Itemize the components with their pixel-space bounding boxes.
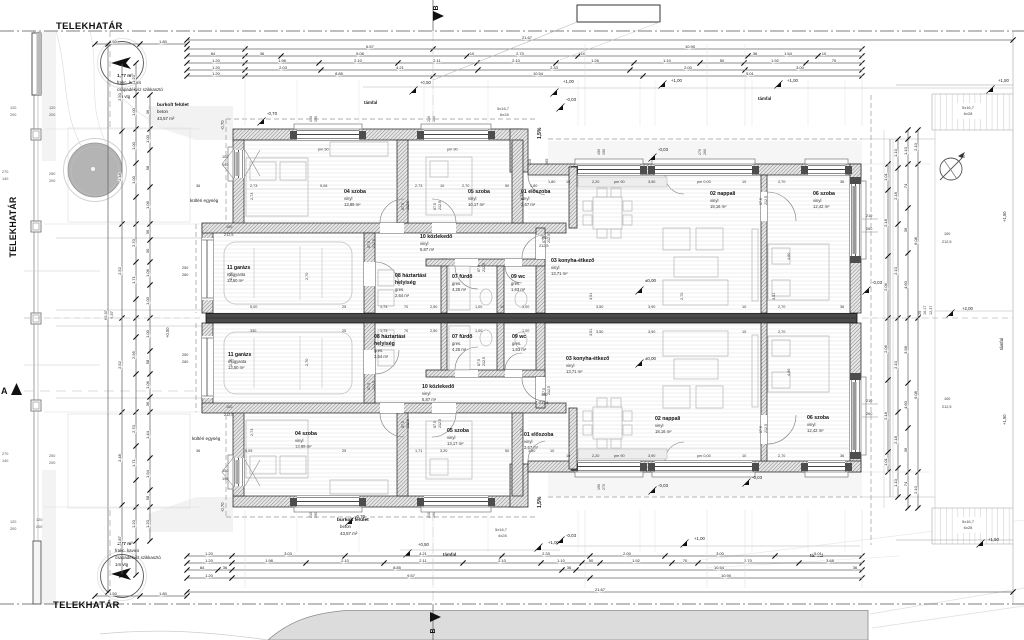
svg-text:É: É bbox=[962, 152, 965, 159]
svg-text:1,44: 1,44 bbox=[145, 430, 150, 439]
svg-text:70: 70 bbox=[832, 58, 837, 63]
concrete patch bottom-left bbox=[148, 497, 233, 532]
terrace strip top right section bbox=[548, 141, 862, 164]
svg-text:+1,00: +1,00 bbox=[787, 78, 798, 83]
svg-text:260: 260 bbox=[866, 412, 872, 416]
svg-text:2,50: 2,50 bbox=[430, 305, 437, 309]
svg-text:11 garázs: 11 garázs bbox=[228, 352, 251, 358]
svg-text:3,51: 3,51 bbox=[589, 329, 593, 336]
svg-text:-0,03: -0,03 bbox=[752, 475, 763, 480]
door arc 09 bottom bbox=[505, 353, 522, 370]
svg-text:5,05: 5,05 bbox=[245, 449, 252, 453]
svg-text:212,5: 212,5 bbox=[438, 419, 442, 428]
svg-text:beton: beton bbox=[157, 109, 169, 114]
svg-text:21,67: 21,67 bbox=[595, 587, 606, 592]
svg-text:2,10: 2,10 bbox=[512, 58, 521, 63]
svg-text:4x28: 4x28 bbox=[498, 533, 507, 538]
svg-text:+1,50: +1,50 bbox=[988, 537, 999, 542]
svg-text:pm 90: pm 90 bbox=[318, 148, 329, 152]
svg-text:burkolt felület: burkolt felület bbox=[157, 102, 189, 108]
door arc terrace top bbox=[665, 175, 684, 194]
room label 07 bottom bbox=[452, 334, 472, 352]
svg-text:74: 74 bbox=[903, 481, 908, 486]
wall 05-eloszoba top bbox=[512, 140, 523, 223]
svg-text:5,08: 5,08 bbox=[320, 184, 327, 188]
svg-text:2,10: 2,10 bbox=[341, 558, 350, 563]
fence post tall bottom bbox=[33, 541, 41, 604]
level line +1,00 top bbox=[560, 87, 1013, 89]
svg-text:190: 190 bbox=[597, 149, 601, 155]
room label 03 top bbox=[551, 258, 594, 276]
svg-text:08 háztartási: 08 háztartási bbox=[374, 334, 406, 340]
svg-text:260: 260 bbox=[182, 273, 188, 277]
wall exterior top-right section bbox=[528, 164, 861, 175]
room label 01 bottom bbox=[524, 432, 554, 450]
svg-text:2,70: 2,70 bbox=[131, 238, 136, 247]
svg-text:03 konyha-étkező: 03 konyha-étkező bbox=[551, 258, 594, 264]
svg-text:2,18: 2,18 bbox=[883, 218, 888, 227]
svg-text:3,68: 3,68 bbox=[826, 558, 835, 563]
svg-text:36: 36 bbox=[145, 401, 150, 406]
driveway edges bottom bbox=[56, 325, 202, 327]
svg-text:helyiség: helyiség bbox=[395, 280, 416, 286]
faint parcel rect top-left bbox=[68, 128, 190, 222]
wall 04-05 bottom bbox=[397, 413, 408, 496]
level +1,50 top right bbox=[896, 84, 1013, 86]
garage door bottom bbox=[202, 336, 213, 398]
room label 11 bottom bbox=[228, 352, 251, 370]
svg-text:120: 120 bbox=[10, 520, 16, 524]
svg-text:TELEKHATÁR: TELEKHATÁR bbox=[56, 21, 123, 32]
window swing chevron bottom bbox=[222, 458, 233, 486]
door arc 06 bottom bbox=[767, 415, 796, 444]
svg-text:-0,03: -0,03 bbox=[566, 97, 577, 102]
svg-text:2,18: 2,18 bbox=[893, 191, 898, 200]
svg-text:6,08: 6,08 bbox=[913, 390, 918, 399]
room label 08 bottom bbox=[374, 334, 406, 340]
svg-text:6x28: 6x28 bbox=[500, 112, 509, 117]
wall 04-05 top bbox=[397, 140, 408, 223]
wall eloszoba-konyha top bbox=[569, 167, 577, 228]
dimension chain left 4 bbox=[149, 95, 151, 541]
svg-text:2,70: 2,70 bbox=[516, 51, 525, 56]
svg-text:330: 330 bbox=[250, 329, 256, 333]
svg-text:270: 270 bbox=[2, 170, 8, 174]
dimension chain bottom 1 bbox=[187, 555, 862, 557]
svg-text:36: 36 bbox=[840, 180, 844, 184]
svg-text:vinyl: vinyl bbox=[295, 438, 303, 443]
svg-text:TELEKHATÁR: TELEKHATÁR bbox=[8, 196, 18, 257]
svg-text:12,37: 12,37 bbox=[929, 305, 933, 315]
room label 09 top bbox=[511, 274, 526, 292]
svg-text:120: 120 bbox=[10, 106, 16, 110]
svg-text:4,60: 4,60 bbox=[903, 280, 908, 289]
svg-text:támfal: támfal bbox=[758, 96, 771, 101]
svg-text:1,54: 1,54 bbox=[784, 51, 793, 56]
dimension chain top 5 bbox=[187, 69, 862, 71]
svg-text:260: 260 bbox=[866, 227, 872, 231]
window 04 szoba top bbox=[294, 124, 362, 140]
TELEKHATAR bottom boundary line bbox=[0, 603, 1024, 605]
svg-text:A: A bbox=[1, 386, 8, 396]
svg-text:vinyl: vinyl bbox=[566, 363, 574, 368]
band level dash right margin bbox=[862, 317, 1013, 319]
svg-text:3,51: 3,51 bbox=[772, 293, 776, 300]
svg-text:2,70: 2,70 bbox=[778, 454, 785, 458]
svg-text:3,90: 3,90 bbox=[648, 454, 655, 458]
door arc entrance bottom bbox=[528, 441, 545, 461]
svg-text:5,87 m²: 5,87 m² bbox=[420, 247, 435, 252]
svg-text:270: 270 bbox=[2, 452, 8, 456]
svg-text:2,11: 2,11 bbox=[433, 58, 441, 63]
svg-text:10: 10 bbox=[470, 51, 475, 56]
svg-text:2,33: 2,33 bbox=[550, 65, 559, 70]
svg-text:2,70: 2,70 bbox=[778, 305, 785, 309]
dimension chain bottom 4 bbox=[187, 577, 862, 579]
door arc 08 top bbox=[375, 262, 399, 286]
wall nappali-06szoba bottom bbox=[761, 323, 767, 461]
party wall dark band bbox=[206, 314, 857, 324]
svg-text:36: 36 bbox=[260, 51, 265, 56]
svg-text:50: 50 bbox=[720, 58, 725, 63]
svg-text:212,5: 212,5 bbox=[224, 413, 234, 417]
svg-text:támfal: támfal bbox=[999, 338, 1004, 350]
road pavement bottom bbox=[268, 611, 868, 640]
svg-text:1,80: 1,80 bbox=[530, 184, 537, 188]
svg-text:+1,00: +1,00 bbox=[548, 540, 559, 545]
furniture washer 08 top bbox=[378, 290, 394, 306]
wall corridor-bath bottom bbox=[426, 370, 545, 377]
svg-text:2,70: 2,70 bbox=[778, 180, 785, 184]
tree circle bbox=[68, 143, 122, 197]
svg-text:100: 100 bbox=[944, 232, 950, 236]
svg-text:8,85: 8,85 bbox=[335, 71, 344, 76]
svg-text:pm 0,00: pm 0,00 bbox=[697, 180, 711, 184]
svg-text:kültéri egység: kültéri egység bbox=[192, 436, 221, 441]
furniture tv stand top bbox=[752, 229, 758, 301]
room label 02 bottom bbox=[655, 416, 681, 434]
svg-text:87,5: 87,5 bbox=[401, 421, 405, 428]
svg-text:helyiség: helyiség bbox=[374, 341, 395, 347]
svg-text:212,5: 212,5 bbox=[539, 401, 549, 405]
window konyha top bbox=[575, 159, 643, 175]
furniture bed 04 top bbox=[246, 158, 308, 216]
svg-text:2,73: 2,73 bbox=[250, 184, 257, 188]
svg-text:-0,03: -0,03 bbox=[658, 483, 669, 488]
glass bar right upper bbox=[853, 186, 857, 254]
wall bedrooms-corridor top bbox=[202, 223, 566, 233]
window 05 szoba bottom bbox=[421, 496, 491, 512]
svg-text:2,10: 2,10 bbox=[893, 266, 898, 275]
furniture bath fixtures top bbox=[449, 266, 470, 310]
wall exterior left bedrooms bottom bbox=[233, 412, 244, 496]
band level dash left margin bbox=[24, 317, 200, 319]
svg-text:43,57 m²: 43,57 m² bbox=[340, 531, 358, 536]
svg-text:5x16,7: 5x16,7 bbox=[497, 106, 510, 111]
svg-text:+1,00: +1,00 bbox=[671, 78, 682, 83]
svg-text:190: 190 bbox=[597, 484, 601, 490]
svg-text:1,10: 1,10 bbox=[893, 148, 898, 157]
TELEKHATAR top boundary line bbox=[0, 30, 1024, 32]
svg-text:1,10: 1,10 bbox=[663, 58, 672, 63]
wall 07-09 top bbox=[497, 262, 504, 313]
room label 05 top bbox=[468, 189, 490, 207]
wall corridor-bath top bbox=[426, 259, 545, 266]
svg-text:50: 50 bbox=[505, 449, 509, 453]
svg-text:2,06: 2,06 bbox=[883, 344, 888, 353]
svg-text:10: 10 bbox=[566, 454, 570, 458]
svg-text:12,42 m²: 12,42 m² bbox=[807, 428, 824, 433]
svg-text:2,73: 2,73 bbox=[415, 184, 422, 188]
svg-text:25: 25 bbox=[342, 329, 346, 333]
window 04 szoba bottom bbox=[294, 496, 362, 512]
svg-text:212,5: 212,5 bbox=[539, 244, 549, 248]
svg-text:5x16,7: 5x16,7 bbox=[962, 519, 975, 524]
svg-text:210: 210 bbox=[866, 399, 872, 403]
svg-text:2,70: 2,70 bbox=[680, 293, 684, 300]
dimension chain top 6 bbox=[187, 75, 862, 77]
svg-text:25: 25 bbox=[342, 305, 346, 309]
svg-text:10,90: 10,90 bbox=[685, 44, 696, 49]
svg-text:1,92: 1,92 bbox=[632, 558, 641, 563]
furniture bath fixtures bottom bbox=[449, 326, 470, 370]
svg-text:1,20: 1,20 bbox=[212, 58, 221, 63]
svg-text:2,50: 2,50 bbox=[117, 92, 122, 101]
svg-text:140: 140 bbox=[2, 177, 8, 181]
svg-text:09 wc: 09 wc bbox=[512, 334, 526, 340]
extension lines left bbox=[44, 128, 200, 130]
room label 04 top bbox=[344, 189, 366, 207]
svg-text:B: B bbox=[433, 5, 440, 10]
svg-text:200: 200 bbox=[49, 113, 55, 117]
door arc 09 top bbox=[505, 266, 522, 283]
svg-text:10,54: 10,54 bbox=[714, 565, 725, 570]
dimension chain right 2 bbox=[897, 139, 899, 497]
svg-text:2,73: 2,73 bbox=[250, 193, 254, 200]
svg-text:190: 190 bbox=[314, 116, 318, 122]
svg-text:támfal: támfal bbox=[364, 100, 377, 105]
svg-text:2,52: 2,52 bbox=[117, 266, 122, 275]
door arc 05 top bbox=[432, 199, 456, 223]
svg-text:62,37: 62,37 bbox=[103, 309, 108, 320]
svg-text:212,5: 212,5 bbox=[547, 234, 551, 243]
svg-text:1,20: 1,20 bbox=[212, 65, 221, 70]
terrace right outline bbox=[934, 130, 936, 508]
furniture sofa set bottom bbox=[663, 386, 690, 408]
svg-text:1,98: 1,98 bbox=[265, 558, 274, 563]
wall exterior right lower bbox=[850, 323, 861, 472]
cross mark bottom bbox=[245, 460, 260, 486]
dimension chain right 1 bbox=[887, 164, 889, 472]
svg-text:1,06: 1,06 bbox=[145, 200, 150, 209]
svg-text:87,5: 87,5 bbox=[433, 203, 437, 210]
svg-text:04 szoba: 04 szoba bbox=[295, 431, 317, 437]
wall exterior garage left top bbox=[202, 224, 213, 313]
window right wall upper bbox=[850, 181, 866, 259]
window 05 szoba top bbox=[421, 124, 491, 140]
extension lines top bbox=[296, 80, 298, 126]
left fence line bbox=[33, 31, 35, 604]
svg-text:+1,50: +1,50 bbox=[998, 78, 1009, 83]
wall exterior garage left bottom bbox=[202, 323, 213, 412]
svg-text:1,00: 1,00 bbox=[522, 305, 529, 309]
svg-text:pm 90: pm 90 bbox=[614, 454, 625, 458]
svg-text:200: 200 bbox=[10, 527, 16, 531]
wall exterior right upper bbox=[850, 164, 861, 313]
svg-text:vinyl: vinyl bbox=[524, 439, 532, 444]
svg-text:vinyl: vinyl bbox=[420, 241, 428, 246]
svg-text:pm 0,00: pm 0,00 bbox=[697, 454, 711, 458]
dimension chain top small left bbox=[95, 43, 187, 45]
extension lines bottom bbox=[296, 510, 298, 552]
roof eave dashes bottom unit bbox=[226, 516, 535, 518]
left boundary gray strip bbox=[42, 31, 56, 161]
svg-text:2,10: 2,10 bbox=[913, 142, 918, 151]
fence post squares bbox=[31, 129, 41, 140]
svg-text:3,00: 3,00 bbox=[716, 551, 725, 556]
svg-text:4,21: 4,21 bbox=[419, 551, 428, 556]
door arc konyha top bbox=[522, 235, 545, 258]
svg-text:2,48: 2,48 bbox=[117, 453, 122, 462]
dimension chain top 3 bbox=[187, 55, 862, 57]
svg-text:1,10: 1,10 bbox=[893, 478, 898, 487]
svg-text:07 fürdő: 07 fürdő bbox=[452, 334, 472, 340]
window 210/260 right wall labels bbox=[862, 218, 878, 220]
svg-text:1,73: 1,73 bbox=[380, 305, 387, 309]
svg-text:270: 270 bbox=[698, 149, 702, 155]
svg-text:8,85: 8,85 bbox=[393, 565, 402, 570]
svg-text:02 nappali: 02 nappali bbox=[655, 416, 681, 422]
svg-text:2,50: 2,50 bbox=[430, 329, 437, 333]
svg-text:190: 190 bbox=[432, 512, 436, 518]
svg-text:87,5: 87,5 bbox=[477, 359, 481, 366]
wall exterior bottom-left section bbox=[233, 496, 522, 507]
room label 11 top bbox=[227, 265, 250, 283]
svg-text:+2,00: +2,00 bbox=[962, 306, 973, 311]
svg-text:2,70: 2,70 bbox=[131, 424, 136, 433]
furniture kitchen table bottom bbox=[593, 407, 622, 439]
svg-text:TELEKHATÁR: TELEKHATÁR bbox=[53, 600, 120, 611]
svg-text:+1,50: +1,50 bbox=[1002, 211, 1007, 222]
svg-text:1,5%: 1,5% bbox=[537, 127, 543, 139]
svg-text:50: 50 bbox=[505, 184, 509, 188]
svg-text:1,01: 1,01 bbox=[883, 172, 888, 181]
section B line bbox=[432, 31, 434, 604]
svg-text:1,00: 1,00 bbox=[522, 329, 529, 333]
svg-text:2,48: 2,48 bbox=[117, 172, 122, 181]
room label 06 bottom bbox=[807, 415, 829, 433]
svg-text:-0,70: -0,70 bbox=[220, 120, 225, 130]
dimension chain top total bbox=[187, 39, 1013, 41]
svg-text:210: 210 bbox=[427, 116, 431, 122]
svg-text:2,18: 2,18 bbox=[893, 435, 898, 444]
svg-text:87,5: 87,5 bbox=[433, 421, 437, 428]
svg-text:260: 260 bbox=[703, 149, 707, 155]
furniture sofa set top bbox=[663, 228, 690, 250]
svg-text:gres.: gres. bbox=[452, 341, 461, 346]
svg-text:2,20: 2,20 bbox=[592, 180, 599, 184]
level line +2,00 bbox=[935, 310, 1013, 312]
svg-text:+1,00: +1,00 bbox=[563, 79, 574, 84]
extension lines right bbox=[862, 163, 930, 165]
stairs top right bbox=[932, 94, 1013, 130]
svg-text:190: 190 bbox=[602, 149, 606, 155]
furniture wardrobe 04 top bbox=[330, 142, 388, 156]
level +1,50 bottom right bbox=[896, 539, 1013, 541]
svg-text:212,5: 212,5 bbox=[764, 424, 768, 433]
window konyha bottom bbox=[575, 461, 643, 477]
svg-text:74: 74 bbox=[903, 183, 908, 188]
svg-text:2,70: 2,70 bbox=[462, 184, 469, 188]
svg-text:10 közlekedő: 10 közlekedő bbox=[422, 384, 454, 390]
door arc 04 bottom bbox=[380, 413, 404, 437]
window jamb blocks bbox=[290, 131, 861, 506]
svg-text:10 közlekedő: 10 közlekedő bbox=[420, 234, 452, 240]
door arc terrace bottom bbox=[665, 442, 684, 461]
svg-text:3,03: 3,03 bbox=[284, 551, 293, 556]
svg-text:190: 190 bbox=[222, 163, 228, 167]
room label 08 top bbox=[395, 273, 427, 279]
window 06 szoba top bbox=[805, 159, 848, 175]
stairs bottom right bbox=[932, 508, 1013, 544]
wall nappali-06szoba top bbox=[761, 175, 767, 313]
svg-text:100: 100 bbox=[944, 397, 950, 401]
svg-text:frakc. kavics: frakc. kavics bbox=[117, 80, 142, 85]
svg-text:84: 84 bbox=[211, 51, 216, 56]
terrace strip bottom right section bbox=[548, 472, 862, 496]
svg-text:210: 210 bbox=[866, 214, 872, 218]
svg-text:36: 36 bbox=[145, 109, 150, 114]
svg-text:-0,70: -0,70 bbox=[220, 502, 225, 512]
svg-text:gres.: gres. bbox=[395, 287, 404, 292]
svg-text:vinyl: vinyl bbox=[813, 198, 821, 203]
svg-text:1,20: 1,20 bbox=[212, 71, 221, 76]
svg-text:1,20: 1,20 bbox=[205, 551, 214, 556]
svg-text:87,5: 87,5 bbox=[367, 383, 371, 390]
svg-text:07 fürdő: 07 fürdő bbox=[452, 274, 472, 280]
svg-text:36: 36 bbox=[753, 51, 758, 56]
furniture wardrobe 04 bottom bbox=[330, 480, 388, 494]
svg-text:212,5: 212,5 bbox=[406, 419, 410, 428]
svg-text:vinyl: vinyl bbox=[468, 196, 476, 201]
svg-text:10: 10 bbox=[742, 454, 746, 458]
svg-text:10: 10 bbox=[742, 180, 746, 184]
svg-text:250: 250 bbox=[49, 172, 55, 176]
svg-text:gres.: gres. bbox=[512, 341, 521, 346]
svg-text:1,98: 1,98 bbox=[278, 58, 287, 63]
svg-text:+1,00: +1,00 bbox=[694, 536, 705, 541]
furniture bed 04 bottom bbox=[246, 420, 308, 478]
wall 07-09 bottom bbox=[497, 323, 504, 374]
svg-text:210: 210 bbox=[309, 512, 313, 518]
svg-text:10,54: 10,54 bbox=[533, 71, 544, 76]
svg-text:190: 190 bbox=[432, 116, 436, 122]
svg-text:5x16,7: 5x16,7 bbox=[495, 527, 508, 532]
wall exterior step bbox=[510, 129, 528, 172]
room label 04 bottom bbox=[295, 431, 317, 449]
svg-text:vinyl: vinyl bbox=[447, 435, 455, 440]
svg-text:5,87 m²: 5,87 m² bbox=[422, 397, 437, 402]
furniture bed 05 top bbox=[426, 157, 472, 215]
svg-text:1,01: 1,01 bbox=[883, 457, 888, 466]
svg-text:36: 36 bbox=[853, 565, 858, 570]
svg-text:18,16 m²: 18,16 m² bbox=[710, 204, 727, 209]
wall garage-haztartasi top bbox=[364, 233, 375, 313]
svg-text:212,5: 212,5 bbox=[482, 263, 486, 272]
svg-text:2,70: 2,70 bbox=[305, 359, 309, 366]
svg-text:gres.: gres. bbox=[452, 281, 461, 286]
svg-text:05 szoba: 05 szoba bbox=[447, 428, 469, 434]
